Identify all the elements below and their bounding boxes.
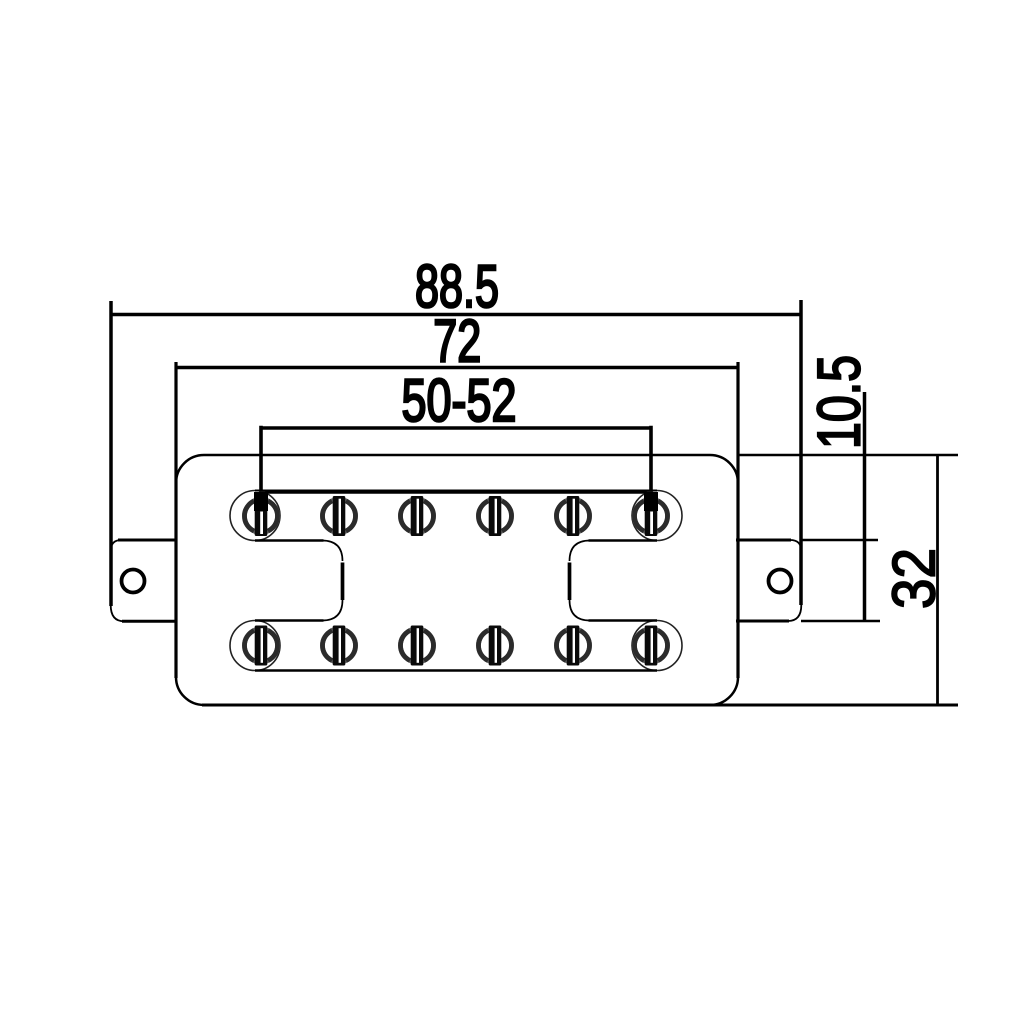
extension line right 50-52 [649,426,653,512]
pole screw 12 (row 2 col 6) [634,626,667,666]
bobbin corner circle top-left [230,491,280,541]
pole screw 7 (row 2 col 1) [244,626,277,666]
pole screw 6 (row 1 col 6) [634,492,667,536]
extension line tab bottom [801,620,880,622]
extension line body bottom right [202,703,958,706]
svg-text:72: 72 [433,308,481,375]
pole screw 8 (row 2 col 2) [322,626,355,666]
blob left [255,493,268,510]
bobbin corner circle bottom-left [230,621,280,671]
pole screw 5 (row 1 col 5) [556,496,589,536]
extension line right 88.5 [799,300,803,605]
left mounting tab corners [111,540,124,621]
pole screw 2 (row 1 col 2) [322,496,355,536]
bottom bobbin top edge left [255,619,324,622]
top bobbin top edge [255,490,657,492]
pole screw 4 (row 1 col 4) [478,496,511,536]
left mounting tab bottom edge [122,620,176,623]
top bobbin bottom edge left [255,539,324,542]
extension line left 50-52 [259,426,263,512]
top bobbin bottom edge right [589,539,658,542]
notch left top arc [322,541,343,562]
dimension line 10.5 [863,392,867,621]
extension line left 88.5 [109,301,113,606]
right mounting tab top edge [736,539,791,542]
crossbar 50-52 [261,490,651,494]
notch right bottom arc [570,600,591,621]
dimension line 32 [936,455,939,704]
pole screw 9 (row 2 col 3) [400,626,433,666]
dimension line 88.5 [111,313,801,317]
left tab hole [122,570,145,593]
notch right top arc [570,541,591,562]
right mounting tab bottom edge [736,620,789,623]
pickup body [176,455,738,705]
blob right [645,493,658,510]
notch right vertical [568,563,572,601]
pole screw 1 (row 1 col 1) [244,492,277,536]
dimension line 72 [176,366,738,370]
left mounting tab top edge [118,539,176,542]
svg-text:32: 32 [881,548,948,609]
extension line right 72 [736,362,739,678]
extension line body top right [738,454,958,456]
pole screw 11 (row 2 col 5) [556,626,589,666]
notch left bottom arc [322,600,343,621]
bobbin corner circle bottom-right [632,621,682,671]
bobbin corner circle top-right [632,491,682,541]
svg-text:10.5: 10.5 [806,355,873,449]
bottom bobbin bottom edge [255,669,657,672]
bottom bobbin top edge right [589,619,658,622]
notch left vertical [341,563,345,601]
extension line tab top [801,539,878,541]
extension line left 72 [174,362,177,678]
dimension line 50-52 [261,426,651,430]
svg-text:50-52: 50-52 [402,367,517,434]
right tab hole [769,570,792,593]
pole screw 3 (row 1 col 3) [400,496,433,536]
right mounting tab corners [788,540,801,621]
pole screw 10 (row 2 col 4) [478,626,511,666]
